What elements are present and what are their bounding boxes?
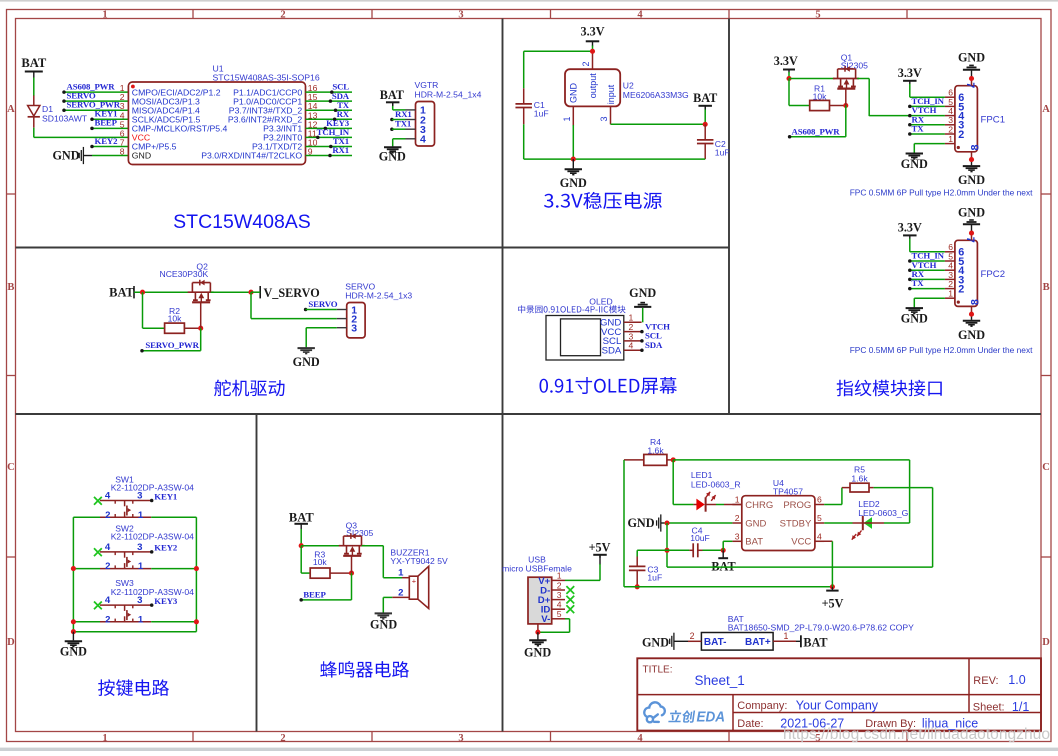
svg-text:YX-YT9042 5V: YX-YT9042 5V: [390, 556, 448, 566]
svg-text:A: A: [7, 104, 15, 115]
svg-text:2: 2: [958, 284, 964, 296]
svg-text:VGTR: VGTR: [415, 80, 439, 90]
svg-text:GND: GND: [745, 518, 766, 529]
svg-text:TITLE:: TITLE:: [643, 664, 673, 675]
svg-text:4: 4: [629, 341, 634, 351]
svg-text:Company:: Company:: [737, 700, 787, 712]
svg-text:1: 1: [948, 289, 953, 299]
svg-text:8: 8: [970, 144, 982, 150]
svg-text:FPC 0.5MM 6P Pull type H2.0mm: FPC 0.5MM 6P Pull type H2.0mm Under the …: [850, 345, 1033, 355]
svg-text:input: input: [606, 84, 616, 104]
svg-text:10k: 10k: [313, 557, 328, 567]
svg-text:Date:: Date:: [737, 718, 763, 730]
svg-text:KEY3: KEY3: [154, 596, 178, 606]
svg-text:6: 6: [817, 495, 822, 505]
svg-text:TP4057: TP4057: [773, 487, 803, 497]
svg-text:FPC2: FPC2: [981, 269, 1006, 280]
svg-text:1: 1: [138, 561, 144, 572]
svg-text:HDR-M-2.54_1x3: HDR-M-2.54_1x3: [345, 291, 412, 301]
svg-text:BAT18650-SMD_2P-L79.0-W20.6-P7: BAT18650-SMD_2P-L79.0-W20.6-P78.62 COPY: [728, 623, 914, 633]
svg-text:2: 2: [280, 733, 285, 744]
svg-text:4: 4: [105, 542, 111, 553]
svg-text:10uF: 10uF: [690, 533, 710, 543]
svg-text:3.3V: 3.3V: [774, 54, 798, 68]
svg-text:SERVO_PWR: SERVO_PWR: [145, 340, 199, 350]
svg-text:2: 2: [581, 61, 591, 66]
svg-text:5: 5: [815, 9, 820, 20]
svg-text:BEEP: BEEP: [95, 118, 118, 128]
svg-text:BAT: BAT: [745, 537, 763, 548]
svg-text:4: 4: [817, 531, 822, 541]
svg-text:K2-1102DP-A3SW-04: K2-1102DP-A3SW-04: [111, 482, 194, 492]
svg-text:1uF: 1uF: [715, 147, 730, 157]
svg-text:TX: TX: [912, 278, 925, 288]
svg-text:5: 5: [817, 513, 822, 523]
svg-text:GND: GND: [560, 176, 587, 190]
svg-text:GND: GND: [52, 148, 79, 162]
svg-text:2: 2: [105, 510, 110, 521]
svg-text:BAT+: BAT+: [745, 637, 771, 648]
svg-text:GND: GND: [958, 205, 985, 219]
svg-text:BAT: BAT: [803, 636, 827, 650]
svg-text:2: 2: [105, 561, 110, 572]
svg-text:7: 7: [964, 237, 976, 243]
svg-text:HDR-M-2.54_1x4: HDR-M-2.54_1x4: [415, 90, 482, 100]
svg-text:GND: GND: [370, 618, 397, 632]
svg-text:A: A: [1042, 104, 1050, 115]
svg-text:EDA: EDA: [697, 710, 726, 726]
svg-text:3.3V: 3.3V: [898, 66, 922, 80]
svg-text:BAT: BAT: [693, 91, 717, 105]
svg-text:Sheet:: Sheet:: [973, 702, 1005, 714]
svg-text:1: 1: [398, 568, 404, 579]
svg-text:3: 3: [599, 116, 609, 121]
svg-text:NCE30P30K: NCE30P30K: [160, 269, 209, 279]
svg-text:3: 3: [351, 323, 357, 335]
svg-text:KEY1: KEY1: [154, 491, 177, 501]
svg-text:https://blog.csdn.net/lihuadao: https://blog.csdn.net/lihuadaotongzhuo: [783, 726, 1050, 743]
svg-text:BAT: BAT: [380, 88, 404, 102]
svg-text:V_SERVO: V_SERVO: [264, 286, 320, 300]
svg-text:BAT: BAT: [109, 286, 134, 300]
svg-text:1: 1: [562, 116, 572, 121]
svg-text:GND: GND: [569, 83, 579, 104]
svg-text:GND: GND: [901, 157, 928, 171]
svg-text:D1: D1: [42, 104, 53, 114]
svg-text:B: B: [1043, 282, 1050, 293]
svg-text:2: 2: [735, 513, 740, 523]
svg-text:TX: TX: [912, 124, 925, 134]
svg-text:STC15W408AS: STC15W408AS: [173, 211, 311, 233]
svg-text:1: 1: [102, 733, 107, 744]
svg-text:KEY2: KEY2: [154, 543, 178, 553]
svg-text:7: 7: [964, 82, 976, 88]
svg-text:3: 3: [458, 9, 463, 20]
svg-text:STDBY: STDBY: [780, 518, 812, 529]
svg-text:B: B: [7, 282, 14, 293]
svg-text:8: 8: [120, 147, 125, 157]
svg-text:TX1: TX1: [395, 119, 411, 129]
svg-text:2: 2: [948, 124, 953, 134]
svg-text:BAT: BAT: [289, 510, 314, 524]
svg-text:CHRG: CHRG: [745, 500, 773, 511]
svg-text:+: +: [412, 577, 417, 586]
svg-text:SDA: SDA: [602, 346, 622, 357]
svg-text:FPC1: FPC1: [981, 115, 1006, 126]
svg-text:1: 1: [557, 571, 562, 581]
svg-text:RX1: RX1: [332, 145, 349, 155]
svg-text:BEEP: BEEP: [303, 589, 326, 599]
svg-text:GND: GND: [958, 328, 985, 342]
svg-text:1: 1: [102, 9, 107, 20]
svg-text:GND: GND: [379, 149, 406, 163]
svg-text:BAT: BAT: [21, 56, 47, 70]
svg-text:LED-0603_G: LED-0603_G: [858, 508, 908, 518]
svg-text:3: 3: [458, 733, 463, 744]
svg-text:output: output: [588, 73, 598, 99]
svg-text:ME6206A33M3G: ME6206A33M3G: [623, 90, 689, 100]
svg-text:GND: GND: [901, 312, 928, 326]
svg-text:2: 2: [958, 129, 964, 141]
svg-text:10k: 10k: [168, 313, 183, 323]
svg-text:PROG: PROG: [783, 500, 811, 511]
svg-text:FPC 0.5MM 6P Pull type H2.0mm: FPC 0.5MM 6P Pull type H2.0mm Under the …: [850, 188, 1033, 198]
svg-text:STC15W408AS-35I-SOP16: STC15W408AS-35I-SOP16: [213, 73, 320, 83]
svg-text:K2-1102DP-A3SW-04: K2-1102DP-A3SW-04: [111, 531, 194, 541]
svg-text:SDA: SDA: [645, 340, 663, 350]
svg-text:GND: GND: [642, 635, 669, 649]
svg-text:1.6k: 1.6k: [851, 473, 868, 483]
svg-text:REV:: REV:: [973, 675, 998, 687]
svg-text:+5V: +5V: [589, 541, 611, 555]
svg-text:KEY2: KEY2: [95, 136, 119, 146]
svg-text:GND: GND: [60, 644, 87, 658]
svg-text:GND: GND: [958, 173, 985, 187]
svg-text:2: 2: [690, 631, 695, 641]
svg-text:P3.0/RXD/INT4#/T2CLKO: P3.0/RXD/INT4#/T2CLKO: [201, 151, 302, 161]
svg-text:3: 3: [557, 590, 562, 600]
svg-text:C: C: [7, 462, 15, 473]
svg-text:2: 2: [557, 580, 562, 590]
svg-text:Your Company: Your Company: [796, 698, 879, 712]
svg-text:AS608_PWR: AS608_PWR: [792, 126, 841, 136]
svg-text:RX1: RX1: [395, 109, 412, 119]
svg-text:+5V: +5V: [822, 597, 844, 611]
svg-text:1: 1: [138, 510, 144, 521]
svg-text:BAT-: BAT-: [704, 637, 727, 648]
svg-text:2: 2: [105, 614, 110, 625]
svg-text:GND: GND: [293, 355, 320, 369]
svg-text:GND: GND: [958, 51, 985, 65]
svg-text:2: 2: [280, 9, 285, 20]
svg-text:3: 3: [137, 542, 142, 553]
svg-text:2: 2: [948, 279, 953, 289]
svg-text:U2: U2: [623, 81, 634, 91]
svg-text:4: 4: [637, 9, 643, 20]
svg-text:1: 1: [735, 495, 740, 505]
svg-text:3.3V: 3.3V: [580, 25, 604, 39]
svg-text:1: 1: [784, 631, 789, 641]
svg-text:GND: GND: [629, 286, 656, 300]
svg-text:GND: GND: [524, 646, 551, 660]
svg-text:GND: GND: [627, 516, 654, 530]
svg-text:1uF: 1uF: [647, 572, 662, 582]
svg-text:4: 4: [637, 733, 643, 744]
svg-text:1uF: 1uF: [534, 109, 549, 119]
svg-text:1: 1: [138, 614, 144, 625]
svg-text:GND: GND: [132, 151, 151, 161]
svg-text:LED-0603_R: LED-0603_R: [691, 480, 741, 490]
svg-text:V-: V-: [541, 614, 550, 625]
svg-text:1: 1: [948, 134, 953, 144]
svg-text:Sheet_1: Sheet_1: [695, 673, 745, 688]
svg-text:3: 3: [735, 531, 740, 541]
svg-text:D: D: [1042, 637, 1050, 648]
svg-text:D: D: [7, 637, 15, 648]
svg-text:5: 5: [557, 609, 562, 619]
svg-text:1.0: 1.0: [1008, 673, 1025, 687]
svg-text:4: 4: [557, 600, 562, 610]
svg-text:1/1: 1/1: [1012, 700, 1029, 714]
svg-text:C: C: [1042, 462, 1050, 473]
svg-text:LED1: LED1: [691, 470, 713, 480]
svg-text:8: 8: [970, 299, 982, 305]
svg-text:3.3V: 3.3V: [898, 221, 922, 235]
svg-text:10k: 10k: [813, 91, 828, 101]
svg-text:SD103AWT: SD103AWT: [42, 114, 88, 124]
svg-text:VCC: VCC: [791, 537, 811, 548]
svg-text:4: 4: [420, 134, 426, 146]
svg-text:OLED: OLED: [589, 296, 612, 306]
svg-text:SERVO: SERVO: [308, 299, 337, 309]
svg-text:K2-1102DP-A3SW-04: K2-1102DP-A3SW-04: [111, 587, 194, 597]
